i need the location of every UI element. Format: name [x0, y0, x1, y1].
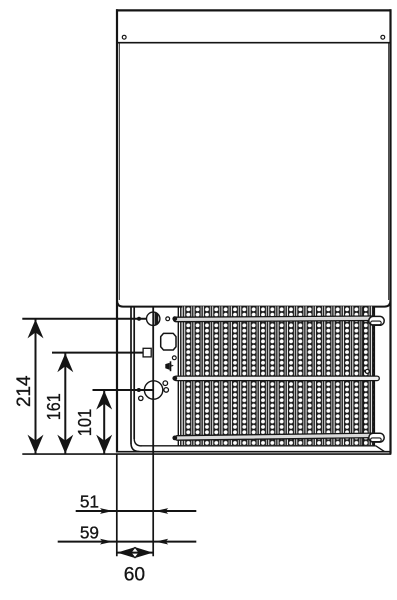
svg-text:161: 161 — [44, 393, 64, 420]
bottom tube U-bend right — [369, 433, 384, 442]
label 59 — [80, 523, 99, 543]
speaker-like symbol — [165, 361, 174, 371]
dimension 60 line with outward arrows — [117, 547, 153, 559]
label 214 — [14, 375, 35, 407]
left inset panel line — [118, 44, 120, 301]
small ring above speaker symbol — [172, 356, 176, 360]
middle tube clamp ring — [365, 369, 369, 373]
floor baseline — [22, 453, 391, 455]
bottom tube left end cap — [172, 436, 177, 441]
dimension 161 extension line — [52, 352, 143, 354]
svg-text:214: 214 — [14, 375, 35, 407]
top panel seam — [117, 42, 391, 44]
ring right of drain — [164, 388, 169, 393]
cabinet right edge — [389, 9, 391, 454]
lower compartment left channel — [131, 307, 142, 452]
dimension 101 arrow line — [96, 390, 112, 454]
cabinet bottom edge — [118, 451, 391, 453]
octagon opening — [161, 333, 176, 350]
ring upper-right of drain — [163, 381, 168, 386]
fitting center line — [152, 307, 154, 455]
label 51 — [80, 492, 99, 512]
bottom left extension line — [116, 454, 118, 556]
label 60 — [124, 564, 145, 585]
condenser right bracket — [363, 307, 374, 446]
dot on 214 line — [138, 317, 141, 320]
right inset panel line — [388, 44, 390, 301]
label 161 — [44, 393, 64, 420]
dimension 214 arrow line — [28, 319, 44, 454]
condenser fin block — [182, 306, 374, 445]
dimension 101 extension line — [93, 389, 154, 391]
middle tube left end cap — [172, 376, 177, 381]
condenser middle tube — [174, 376, 379, 381]
condenser left bracket — [178, 307, 181, 446]
dimension 51 line — [76, 508, 197, 514]
dimension 214 extension line — [22, 318, 146, 320]
svg-text:59: 59 — [80, 523, 99, 543]
drain fitting circle — [144, 381, 162, 399]
upper cabinet bottom divider with rounded corners — [117, 301, 391, 307]
dimension 59 line — [58, 539, 197, 545]
bottom right extension line — [152, 454, 154, 556]
cabinet left edge — [116, 9, 118, 452]
water valve fitting — [147, 311, 160, 326]
condenser bottom tube — [175, 433, 376, 440]
ring below-left of drain — [139, 396, 143, 400]
small ring right of valve — [166, 317, 170, 321]
top tube U-bend right — [369, 316, 384, 325]
dimension 161 arrow line — [57, 353, 73, 455]
inner panel bottom edge — [141, 446, 385, 452]
svg-text:60: 60 — [124, 564, 145, 585]
cabinet top edge — [116, 9, 391, 11]
dot on 101 line — [137, 389, 140, 392]
square fitting — [143, 348, 151, 357]
condenser top tube — [173, 316, 375, 322]
screw right — [381, 35, 385, 39]
top tube left end cap — [172, 316, 177, 321]
screw left — [122, 35, 126, 39]
svg-text:101: 101 — [74, 409, 95, 437]
label 101 — [74, 409, 95, 437]
svg-text:51: 51 — [80, 492, 99, 512]
